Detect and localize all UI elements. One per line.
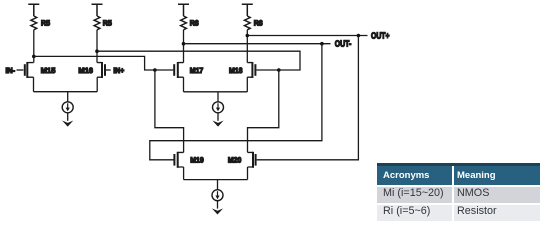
- wire M16 drain node to M18 gate: [97, 51, 300, 70]
- wire M15 source to tail rail: [33, 77, 35, 92]
- wire M20 source to tail rail: [247, 167, 249, 180]
- wire R6 right bottom to M18 drain node: [246, 30, 248, 63]
- current source I2: [213, 102, 224, 113]
- svg-text:R6: R6: [190, 18, 199, 27]
- wire M18 source to tail rail: [246, 77, 248, 92]
- svg-text:R5: R5: [41, 18, 51, 27]
- wire stage2 tail rail: [184, 92, 248, 102]
- node OUT- feedback junction: [320, 42, 324, 46]
- wire stage1 tail rail: [34, 92, 98, 102]
- transistor M17: [174, 62, 183, 78]
- node M16 drain junction: [95, 49, 99, 53]
- transistor M15: [25, 62, 34, 78]
- wire current source I3 to ground: [217, 201, 219, 209]
- wire M17 gate node down to M19 drain: [155, 70, 184, 152]
- wire OUT+ line from R6 right node: [247, 35, 367, 37]
- node M15 drain junction: [32, 55, 36, 59]
- acronyms table: [377, 163, 540, 221]
- wire M17 source to tail rail: [183, 77, 185, 92]
- wire stage3 tail rail: [184, 180, 248, 190]
- node OUT+ junction at R6 right: [246, 34, 250, 38]
- resistor R6 (right): [244, 16, 250, 30]
- power bar VDD of R5 right: [92, 4, 103, 16]
- ground (stage 3): [212, 208, 223, 214]
- resistor R5 (right): [94, 16, 100, 30]
- wire OUT+ feedback down to M20 gate: [257, 36, 359, 160]
- power bar VDD of R6 left: [178, 4, 189, 16]
- wire R5 left bottom to M15 drain node: [33, 30, 35, 63]
- transistor M16: [97, 62, 105, 78]
- ground (stage 1): [62, 121, 73, 127]
- wire M18 gate node down to M20 drain: [248, 70, 279, 152]
- wire current source I2 to ground: [217, 113, 219, 121]
- current source I1: [62, 102, 73, 113]
- transistor M18: [247, 62, 255, 78]
- node OUT- junction at R6 left: [182, 42, 186, 46]
- transistor M19: [174, 152, 183, 168]
- wire IN- to M15 gate: [17, 69, 24, 71]
- wire M16 gate to IN+: [106, 69, 111, 71]
- node OUT+ feedback junction: [357, 34, 361, 38]
- svg-text:IN+: IN+: [113, 66, 124, 75]
- wire OUT- feedback down to M19 gate: [150, 44, 322, 160]
- svg-text:M16: M16: [78, 66, 93, 75]
- wire M16 source to tail rail: [96, 77, 98, 92]
- node M18 gate / M20 drain junction: [277, 68, 281, 72]
- svg-text:M20: M20: [228, 156, 242, 165]
- wire M15 drain node to M17 gate: [34, 56, 174, 70]
- svg-text:M17: M17: [190, 66, 204, 75]
- node M17 gate / M19 drain junction: [153, 68, 157, 72]
- wire R5 right bottom to M16 drain node: [96, 30, 98, 63]
- power bar VDD of R6 right: [242, 4, 253, 16]
- power bar VDD of R5 left: [28, 4, 39, 16]
- svg-text:OUT-: OUT-: [335, 39, 352, 49]
- svg-text:OUT+: OUT+: [371, 30, 390, 40]
- wire M19 source to tail rail: [183, 167, 185, 180]
- svg-text:IN-: IN-: [6, 66, 16, 75]
- wire current source I1 to ground: [67, 113, 69, 121]
- wire R6 left bottom to M17 drain node: [183, 30, 185, 63]
- ground (stage 2): [212, 121, 223, 127]
- svg-text:R6: R6: [254, 18, 263, 27]
- svg-text:R5: R5: [103, 18, 113, 27]
- svg-text:M19: M19: [190, 156, 204, 165]
- svg-text:M18: M18: [229, 66, 243, 75]
- wire OUT- line from R6 left node: [184, 43, 331, 45]
- resistor R5 (left): [31, 16, 37, 30]
- current source I3: [212, 190, 223, 201]
- resistor R6 (left): [181, 16, 187, 30]
- transistor M20: [248, 152, 256, 168]
- svg-text:M15: M15: [41, 66, 56, 75]
